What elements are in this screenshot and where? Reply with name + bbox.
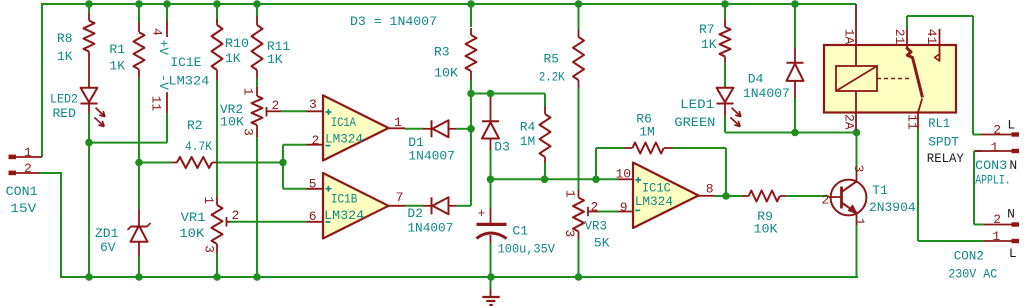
note D3 value	[350, 14, 437, 29]
relay RL1	[824, 4, 964, 166]
resistor R2	[172, 118, 217, 168]
svg-text:5K: 5K	[594, 235, 610, 250]
svg-text:2A: 2A	[841, 114, 856, 130]
svg-text:VR1: VR1	[181, 210, 206, 225]
svg-text:100u,35V: 100u,35V	[498, 241, 556, 256]
junction	[721, 0, 729, 8]
svg-text:N: N	[1007, 207, 1015, 222]
resistor R5	[539, 29, 584, 88]
svg-text:15V: 15V	[10, 201, 36, 216]
LED LED1	[674, 88, 741, 130]
svg-text:1: 1	[24, 145, 32, 160]
wire	[283, 145, 307, 163]
svg-text:2: 2	[993, 123, 1001, 138]
wire	[918, 129, 984, 241]
svg-text:LM324: LM324	[168, 73, 209, 88]
junction	[135, 159, 143, 167]
wire	[470, 4, 472, 94]
junction	[85, 0, 93, 8]
junction	[575, 0, 583, 8]
svg-text:L: L	[1007, 118, 1015, 133]
svg-text:CON3: CON3	[975, 158, 1007, 173]
svg-text:10K: 10K	[179, 226, 204, 241]
svg-text:CON2: CON2	[954, 248, 984, 263]
resistor R1	[109, 22, 144, 78]
svg-text:4.7K: 4.7K	[185, 139, 212, 154]
resistor R11	[252, 16, 291, 78]
svg-text:6: 6	[309, 209, 317, 224]
junction	[791, 0, 799, 8]
svg-text:2: 2	[993, 212, 1001, 227]
wire	[256, 137, 258, 277]
wire	[42, 3, 856, 5]
svg-text:C1: C1	[512, 224, 528, 239]
junction	[467, 90, 475, 98]
junction	[791, 129, 799, 137]
svg-text:R3: R3	[434, 45, 450, 60]
junction	[253, 273, 261, 281]
svg-text:2N3904: 2N3904	[869, 200, 916, 215]
svg-text:1K: 1K	[225, 51, 241, 66]
junction	[213, 0, 221, 8]
svg-text:3: 3	[562, 229, 577, 237]
wire	[490, 148, 492, 208]
svg-text:21: 21	[892, 29, 907, 45]
svg-text:LED1: LED1	[680, 97, 714, 112]
svg-text:R7: R7	[699, 22, 715, 37]
svg-text:2.2K: 2.2K	[539, 69, 565, 84]
junction	[487, 90, 495, 98]
wire	[216, 4, 218, 197]
svg-text:230V AC: 230V AC	[948, 267, 997, 282]
svg-text:1K: 1K	[267, 52, 283, 67]
diode D1	[408, 120, 456, 163]
wire	[596, 148, 625, 179]
connector CON1	[6, 145, 42, 216]
svg-text:2: 2	[24, 161, 32, 176]
junction	[487, 273, 495, 281]
LED LED2	[50, 88, 105, 127]
svg-text:R8: R8	[57, 31, 73, 46]
svg-text:3: 3	[201, 245, 216, 253]
svg-text:4: 4	[149, 28, 164, 36]
svg-text:1K: 1K	[57, 49, 73, 64]
svg-text:RELAY: RELAY	[927, 151, 964, 166]
svg-text:+V: +V	[156, 39, 171, 55]
svg-text:1: 1	[201, 196, 216, 204]
wire	[139, 162, 283, 164]
svg-text:1: 1	[991, 140, 999, 155]
resistor R6	[625, 112, 673, 154]
wire	[230, 221, 307, 223]
svg-text:2: 2	[272, 98, 280, 113]
junction	[487, 176, 495, 184]
svg-text:IC1A: IC1A	[331, 115, 356, 130]
svg-text:1: 1	[852, 218, 867, 226]
svg-text:2: 2	[822, 192, 830, 207]
potentiometer VR3	[562, 190, 610, 251]
junction	[853, 129, 861, 137]
wire	[256, 4, 258, 87]
svg-text:7: 7	[396, 190, 404, 205]
zener ZD1	[95, 209, 151, 256]
wire	[456, 128, 471, 130]
op-amp U1C	[616, 163, 715, 229]
svg-text:L: L	[1009, 246, 1017, 261]
junction	[85, 273, 93, 281]
wire	[283, 163, 307, 189]
svg-text:8: 8	[706, 181, 714, 196]
svg-text:D3 = 1N4007: D3 = 1N4007	[350, 14, 437, 29]
svg-text:10K: 10K	[220, 115, 244, 130]
resistor R10	[212, 19, 250, 80]
svg-text:6V: 6V	[100, 240, 116, 255]
svg-text:APPLI.: APPLI.	[975, 173, 1011, 188]
svg-text:1: 1	[394, 115, 402, 130]
resistor R9	[742, 191, 786, 237]
wire	[794, 4, 796, 133]
svg-text:1N4007: 1N4007	[407, 220, 453, 235]
svg-text:10K: 10K	[434, 66, 458, 81]
wire	[166, 4, 168, 143]
wire	[907, 16, 981, 135]
wire	[725, 116, 857, 133]
svg-text:GREEN: GREEN	[674, 115, 715, 130]
svg-text:9: 9	[620, 200, 628, 215]
svg-text:11: 11	[904, 114, 919, 130]
svg-text:R5: R5	[544, 52, 560, 67]
junction	[467, 0, 475, 8]
svg-text:2: 2	[591, 200, 599, 215]
svg-text:1K: 1K	[109, 58, 125, 73]
svg-text:CON1: CON1	[6, 184, 38, 199]
svg-text:D2: D2	[407, 206, 423, 221]
potentiometer VR1	[179, 196, 239, 253]
wire	[41, 3, 43, 157]
diode D2	[407, 197, 456, 235]
wire	[544, 163, 546, 179]
svg-text:10: 10	[616, 167, 632, 182]
wire	[714, 195, 742, 197]
svg-text:LM324: LM324	[635, 194, 673, 209]
diode D3	[482, 97, 510, 155]
svg-text:VR3: VR3	[585, 219, 608, 234]
wire	[216, 253, 218, 277]
svg-text:1N4007: 1N4007	[408, 148, 455, 163]
capacitor C1	[477, 206, 556, 256]
svg-text:1: 1	[241, 88, 256, 96]
svg-text:1A: 1A	[841, 29, 856, 45]
junction	[213, 273, 221, 281]
svg-text:D4: D4	[748, 71, 764, 86]
wire	[786, 195, 829, 197]
svg-text:1N4007: 1N4007	[743, 86, 790, 101]
wire	[724, 4, 726, 87]
svg-text:RL1: RL1	[928, 116, 950, 131]
wire	[405, 205, 423, 207]
svg-text:R4: R4	[520, 120, 536, 135]
junction	[467, 125, 475, 133]
op-amp U1B	[307, 173, 406, 239]
junction	[135, 273, 143, 281]
junction	[253, 0, 261, 8]
wire	[138, 4, 140, 163]
svg-text:10K: 10K	[754, 222, 778, 237]
potentiometer VR2	[220, 87, 281, 137]
wire	[491, 178, 619, 180]
svg-text:41: 41	[924, 29, 939, 45]
resistor R7	[699, 19, 731, 63]
svg-text:RED: RED	[53, 106, 77, 121]
svg-text:11: 11	[149, 96, 164, 112]
connector CON2	[948, 207, 1019, 282]
wire	[673, 148, 727, 196]
wire	[578, 4, 580, 190]
wire	[281, 110, 307, 112]
resistor R8	[57, 13, 95, 88]
junction	[85, 139, 93, 147]
svg-text:IC1B: IC1B	[331, 192, 358, 207]
wire	[89, 113, 167, 277]
svg-text:2: 2	[312, 133, 320, 148]
diode D4	[743, 48, 804, 101]
svg-text:1M: 1M	[639, 124, 655, 139]
svg-text:R2: R2	[187, 118, 203, 133]
svg-text:R10: R10	[225, 36, 249, 51]
wire	[974, 151, 984, 225]
junction	[592, 176, 600, 184]
svg-text:T1: T1	[872, 183, 888, 198]
svg-text:LED2: LED2	[50, 92, 78, 107]
svg-text:+: +	[478, 206, 486, 221]
svg-text:LM324: LM324	[325, 131, 363, 146]
svg-text:3: 3	[851, 165, 866, 173]
transistor T1	[822, 165, 916, 226]
junction	[163, 0, 171, 8]
wire	[578, 239, 580, 277]
svg-text:3: 3	[309, 97, 317, 112]
junction	[541, 176, 549, 184]
svg-text:N: N	[1009, 158, 1017, 173]
svg-text:R1: R1	[109, 42, 125, 57]
wire	[856, 133, 858, 170]
svg-text:SPDT: SPDT	[928, 134, 959, 149]
svg-text:1: 1	[563, 190, 578, 198]
wire	[598, 211, 618, 213]
wire	[60, 276, 858, 278]
svg-text:LM324: LM324	[324, 208, 364, 223]
wire	[138, 163, 140, 278]
wire	[40, 172, 61, 277]
op-amp U1A	[307, 95, 406, 160]
wire	[471, 94, 545, 108]
svg-text:1K: 1K	[701, 37, 717, 52]
wire	[88, 4, 90, 13]
svg-text:5: 5	[309, 176, 317, 191]
svg-text:1M: 1M	[520, 134, 536, 149]
junction	[722, 192, 730, 200]
svg-text:D3: D3	[494, 140, 510, 155]
junction	[575, 273, 583, 281]
wire	[490, 243, 492, 277]
svg-text:IC1E: IC1E	[170, 55, 201, 70]
junction	[279, 159, 287, 167]
wire	[456, 94, 471, 206]
svg-text:1: 1	[992, 229, 1000, 244]
junction	[135, 0, 143, 8]
connector CON3	[975, 118, 1019, 188]
wire	[856, 225, 858, 277]
resistor R3	[434, 28, 477, 81]
op-amp IC1E	[149, 21, 210, 114]
ground	[482, 277, 499, 305]
svg-text:2: 2	[232, 208, 240, 223]
resistor R4	[520, 107, 551, 163]
wire	[405, 128, 423, 130]
svg-text:ZD1: ZD1	[95, 226, 119, 241]
